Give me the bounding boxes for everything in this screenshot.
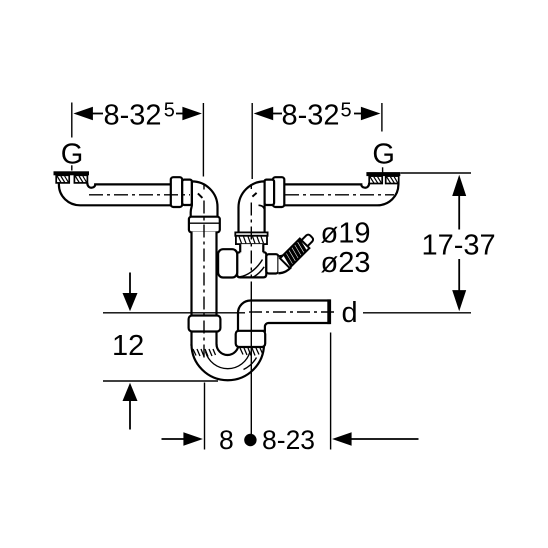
svg-text:G: G [61, 138, 84, 170]
svg-text:ø23: ø23 [321, 247, 371, 279]
svg-text:5: 5 [341, 100, 352, 122]
collar lip on tee inlet [235, 232, 267, 235]
trap U-bend [192, 344, 265, 380]
svg-text:8-23: 8-23 [262, 425, 315, 455]
svg-text:d: d [342, 297, 358, 329]
centerline diagonal dash right elbow [252, 193, 256, 197]
barb elbow bend [278, 256, 293, 275]
svg-text:5: 5 [164, 100, 175, 122]
thread hatch below left trap nut [193, 349, 216, 357]
centerline left pipe [89, 194, 190, 196]
thread hatch below right trap nut [240, 348, 263, 356]
centerline diagonal dash left elbow [198, 193, 203, 198]
collar hatched band [236, 236, 267, 244]
elbow right (down) [239, 181, 265, 233]
pipe left inlet horizontal tube [59, 183, 172, 206]
dimension 8-32.5 right: extension lines [251, 103, 253, 179]
trap flow arcs [206, 352, 251, 369]
trap nut right [236, 331, 266, 348]
bottom dimension 8 / 8-23: extension lines [204, 383, 206, 450]
dimension 17-37: arrows and line [452, 175, 466, 196]
svg-text:8-32: 8-32 [104, 100, 162, 132]
pipe right inlet horizontal tube [284, 183, 398, 206]
tick below left G [71, 165, 73, 170]
trap nut left [189, 316, 221, 332]
svg-text:8: 8 [219, 425, 234, 455]
bottom dimension: arrows and lines [162, 438, 185, 440]
tee nut (to main pipe) [218, 249, 237, 277]
tee body [237, 252, 266, 277]
dimension 8-32.5 right: arrows and line [254, 107, 274, 120]
barb threaded shank [280, 239, 309, 268]
svg-text:ø19: ø19 [321, 218, 371, 250]
dimension 8-32.5 left: extension lines [71, 103, 73, 138]
tee right ring [266, 254, 278, 273]
dimension 12: arrows [129, 273, 131, 295]
bottom dimension: node dot [244, 434, 256, 446]
barb tip [302, 235, 314, 247]
centerline second vertical [250, 184, 252, 189]
flange right (G) [366, 172, 400, 176]
svg-text:G: G [372, 138, 395, 170]
svg-text:8-32: 8-32 [282, 100, 340, 132]
dimension 8-32.5 left: arrows and line [73, 107, 93, 120]
tee inlet short tube [240, 244, 263, 253]
centerline main vertical [203, 184, 205, 190]
svg-text:17-37: 17-37 [422, 230, 496, 262]
coupling rings left pipe [171, 177, 192, 207]
elbow left (down) [191, 181, 218, 217]
centerline pipe d [249, 311, 338, 313]
trap right leg [239, 331, 265, 345]
coupling rings right pipe [264, 177, 284, 207]
dimension 17-37: reference lines [401, 172, 472, 174]
svg-text:12: 12 [112, 330, 144, 362]
socket ring below left elbow [189, 217, 220, 233]
outlet elbow and pipe d [238, 301, 329, 331]
dimension 12: reference lines [103, 312, 245, 314]
centerline right pipe [285, 194, 394, 196]
trap left leg [192, 330, 217, 346]
tick below right G [382, 167, 384, 172]
main vertical tube [192, 232, 217, 317]
pipe d end cap [327, 299, 331, 324]
flange left (G) [54, 171, 90, 175]
tee flow arcs [239, 260, 263, 278]
